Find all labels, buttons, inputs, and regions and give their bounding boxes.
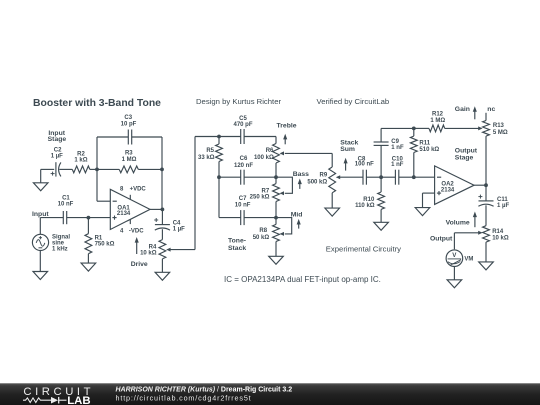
CircuitLab logo [23, 386, 94, 405]
note Experimental Circuitry [326, 245, 401, 254]
svg-text:10 pF: 10 pF [121, 121, 137, 127]
svg-text:10 kΩ: 10 kΩ [140, 251, 157, 257]
capacitor C7 10nF [235, 196, 251, 225]
svg-text:C6: C6 [240, 156, 248, 162]
label Bass with arrow [293, 171, 309, 189]
wire input to C1 [40, 217, 63, 219]
pin 4 -VDC label [120, 228, 144, 234]
label Mid with arrow [291, 212, 303, 229]
wire C8 to node C [366, 176, 381, 178]
junction R5 bottom row2 [217, 175, 221, 179]
svg-text:C4: C4 [173, 220, 181, 226]
potentiometer R14 10k volume [454, 226, 508, 242]
svg-text:R13: R13 [493, 123, 505, 129]
svg-text:C2: C2 [54, 147, 62, 153]
svg-text:R12: R12 [432, 112, 444, 118]
ground at R1 [81, 254, 96, 271]
svg-text:Treble: Treble [277, 123, 297, 130]
wire C1 to node A [67, 217, 89, 219]
label Input Stage [48, 130, 67, 143]
wire node B to R3 [97, 168, 119, 170]
svg-text:1 MΩ: 1 MΩ [430, 118, 445, 124]
voltmeter VM [446, 250, 473, 267]
svg-text:510 kΩ: 510 kΩ [419, 147, 439, 153]
svg-text:http://circuitlab.com/cdg4r2fr: http://circuitlab.com/cdg4r2frres5t [116, 394, 252, 403]
svg-text:120 nF: 120 nF [234, 163, 253, 169]
svg-text:R4: R4 [149, 244, 157, 250]
node C junction [379, 175, 383, 179]
svg-text:2134: 2134 [117, 211, 131, 217]
wire R8 wiper hook [276, 218, 292, 234]
svg-text:110 kΩ: 110 kΩ [355, 203, 375, 209]
wire R14 wiper to voltmeter [453, 233, 455, 250]
svg-text:2134: 2134 [441, 188, 455, 194]
wire OA2 output [474, 184, 486, 186]
svg-text:Output: Output [430, 236, 453, 243]
label Drive with arrow [131, 237, 148, 268]
ground at source [33, 251, 48, 280]
footer bar [0, 383, 540, 405]
capacitor C8 100nF [355, 156, 374, 184]
svg-text:Sum: Sum [340, 146, 355, 153]
wire C9 to feedback rail [381, 127, 414, 129]
label Input [32, 211, 49, 218]
svg-text:IC = OPA2134PA dual FET-input: IC = OPA2134PA dual FET-input op-amp IC. [224, 275, 381, 284]
junction R7 R8 row3 [274, 216, 278, 220]
label Tone-Stack [228, 237, 246, 252]
voltage source SG1 signal sine 1kHz [32, 234, 70, 252]
svg-text:nc: nc [487, 106, 495, 113]
svg-text:1 kHz: 1 kHz [52, 246, 68, 252]
svg-text:Verified by CircuitLab: Verified by CircuitLab [317, 97, 390, 106]
wire feedback top left [97, 136, 128, 138]
potentiometer R7 250k bass [250, 177, 284, 217]
svg-text:Booster with 3-Band Tone: Booster with 3-Band Tone [33, 98, 161, 109]
svg-text:1 nF: 1 nF [391, 162, 404, 168]
svg-text:R9: R9 [320, 172, 328, 178]
capacitor C6 120nF [234, 156, 253, 185]
wire node C to C10 [381, 176, 395, 178]
svg-text:500 kΩ: 500 kΩ [307, 180, 327, 186]
potentiometer R4 10k drive [140, 240, 195, 259]
wire feedback top right [132, 136, 162, 138]
svg-text:Volume: Volume [446, 220, 470, 227]
wire R4 wiper riser [194, 137, 196, 250]
ground at OA2 plus [415, 208, 430, 216]
svg-text:OA2: OA2 [441, 182, 454, 188]
svg-text:VM: VM [464, 257, 473, 263]
ground at R8 [269, 242, 284, 265]
label Volume with arrow [446, 212, 477, 228]
wire OA2 plus to ground [423, 193, 435, 208]
wire input to source [39, 218, 41, 235]
resistor R3 1M [119, 151, 138, 173]
svg-text:100 nF: 100 nF [355, 162, 374, 168]
wire C11 to R14 [485, 205, 487, 225]
svg-text:R8: R8 [259, 228, 267, 234]
potentiometer R8 50k mid [253, 218, 284, 242]
svg-text:C11: C11 [497, 197, 508, 203]
potentiometer R13 5M gain [483, 113, 508, 185]
junction R6 R7 row2 [274, 175, 278, 179]
svg-text:R3: R3 [125, 151, 133, 157]
svg-text:Gain: Gain [455, 106, 470, 113]
svg-text:R6: R6 [266, 148, 274, 154]
wire rail to R12 [414, 127, 429, 129]
svg-text:C9: C9 [391, 139, 399, 145]
ground at R14 [479, 242, 494, 270]
wire R3 to output column [138, 168, 162, 170]
junction OA1 output [161, 208, 165, 212]
capacitor C3 10pF [121, 115, 137, 144]
svg-text:Tone-: Tone- [228, 237, 246, 244]
svg-text:R11: R11 [419, 141, 430, 147]
label nc [487, 106, 495, 113]
op-amp OA1 [110, 189, 150, 229]
svg-text:C5: C5 [239, 116, 247, 122]
svg-text:C3: C3 [124, 115, 132, 121]
svg-text:R14: R14 [492, 229, 504, 235]
footer url text [116, 394, 252, 403]
capacitor C2 1uF polarized [51, 147, 64, 176]
wire node D to OA2 minus [414, 176, 435, 178]
wire R7 wiper hook [276, 177, 292, 193]
svg-text:50 kΩ: 50 kΩ [253, 235, 270, 241]
svg-text:Experimental Circuitry: Experimental Circuitry [326, 245, 401, 254]
label Treble with arrow [277, 123, 297, 145]
svg-text:Stage: Stage [455, 154, 474, 161]
wire row2 right [244, 176, 276, 178]
wire row3 right [244, 217, 276, 219]
junction R3-C3 output column [160, 168, 164, 172]
resistor R1 750k [85, 218, 115, 254]
label Output Stage [455, 148, 478, 162]
svg-text:100 kΩ: 100 kΩ [254, 155, 274, 161]
capacitor C10 1nF [391, 157, 404, 185]
wire rail to C5 [195, 136, 241, 138]
wire ground to C2 [41, 168, 55, 170]
svg-text:C7: C7 [239, 196, 247, 202]
resistor R12 1M [429, 112, 445, 132]
svg-text:1 µF: 1 µF [497, 203, 509, 209]
svg-text:1 nF: 1 nF [391, 145, 404, 151]
svg-text:1 kΩ: 1 kΩ [74, 158, 87, 164]
svg-text:750 kΩ: 750 kΩ [95, 242, 115, 248]
junction R5 top [217, 135, 221, 139]
label Gain with arrow [455, 106, 477, 119]
wire feedback right column [161, 137, 163, 209]
pin 8 +VDC label [120, 187, 146, 193]
label Output [430, 236, 453, 243]
ground at R10 [374, 209, 389, 230]
svg-text:10 nF: 10 nF [58, 202, 74, 208]
resistor R11 510k [410, 128, 439, 177]
wire output junction to C11 [485, 185, 487, 201]
resistor R5 33k [198, 137, 222, 178]
svg-text:R5: R5 [206, 148, 214, 154]
note IC type [224, 275, 381, 284]
ground at R9 [325, 193, 340, 216]
wire R2 to node B [90, 168, 97, 170]
ground at C2 [33, 169, 48, 190]
wire R6 wiper to stack sum [285, 153, 332, 167]
capacitor C9 1nF [374, 128, 404, 177]
svg-text:-VDC: -VDC [129, 228, 144, 234]
svg-text:10 nF: 10 nF [235, 202, 251, 208]
wire left column row2 to row3 [218, 177, 220, 217]
wire OA1 output [150, 208, 162, 210]
subtitle Verified by CircuitLab [317, 97, 390, 106]
node A junction [87, 216, 91, 220]
svg-text:LAB: LAB [67, 395, 90, 405]
title text [33, 98, 161, 109]
wire C5 to R6 [244, 136, 276, 138]
wire row2 left [219, 176, 241, 178]
capacitor C11 1uF polarized [478, 195, 509, 210]
wire node A to OA1 plus [88, 217, 110, 219]
wire C10 to node D [399, 176, 414, 178]
svg-text:Bass: Bass [293, 171, 309, 178]
capacitor C4 1uF polarized [154, 218, 185, 233]
op-amp OA2 [435, 166, 475, 205]
svg-text:1 MΩ: 1 MΩ [122, 157, 137, 163]
ground at R4 [155, 259, 170, 280]
svg-text:Mid: Mid [291, 212, 303, 219]
node D junction [412, 175, 416, 179]
wire C2 to R2 [59, 168, 72, 170]
potentiometer R6 100k treble [254, 137, 284, 178]
svg-text:470 pF: 470 pF [233, 122, 252, 128]
resistor R10 110k [355, 177, 384, 209]
ground at VM [447, 267, 462, 288]
junction R11 top [412, 126, 416, 130]
wire output to C4 [161, 209, 163, 224]
footer title text [116, 386, 293, 393]
wire C4 to R4 [161, 229, 163, 239]
svg-text:33 kΩ: 33 kΩ [198, 155, 215, 161]
svg-text:Design by Kurtus Richter: Design by Kurtus Richter [196, 97, 281, 106]
svg-text:10 kΩ: 10 kΩ [492, 235, 509, 241]
svg-text:1 µF: 1 µF [51, 154, 63, 160]
svg-text:Drive: Drive [131, 261, 148, 268]
potentiometer R9 500k stack sum [307, 167, 363, 193]
svg-text:HARRISON RICHTER (Kurtus) / Dr: HARRISON RICHTER (Kurtus) / Dream-Rig Ci… [116, 386, 293, 393]
svg-text:5 MΩ: 5 MΩ [493, 130, 508, 136]
svg-text:R2: R2 [77, 151, 85, 157]
wire row3 left [219, 217, 241, 219]
svg-text:+VDC: +VDC [130, 187, 147, 193]
subtitle Design by Kurtus Richter [196, 97, 281, 106]
wire R12 to R13 wiper [445, 126, 483, 130]
svg-text:Stack: Stack [228, 245, 246, 252]
svg-text:250 kΩ: 250 kΩ [250, 194, 270, 200]
junction OA2 output [484, 183, 488, 187]
label Stack Sum with arrow [340, 139, 358, 170]
capacitor C1 10nF [58, 196, 74, 225]
capacitor C5 470pF [233, 116, 252, 144]
svg-text:Stage: Stage [48, 136, 67, 143]
wire feedback left column [97, 137, 110, 201]
resistor R2 1k [72, 151, 90, 173]
node B junction [95, 168, 99, 172]
svg-text:1 µF: 1 µF [173, 227, 185, 233]
